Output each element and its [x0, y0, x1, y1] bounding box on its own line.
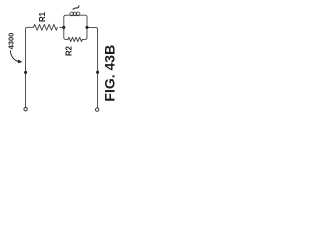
svg-text:R1: R1 — [38, 11, 47, 22]
node dot left of box — [62, 26, 65, 29]
node dot right of box — [85, 26, 88, 29]
wire left vertical with top corner to R1 — [26, 27, 34, 107]
inductor L coil loops — [70, 12, 74, 16]
terminal circle bottom left — [24, 108, 27, 111]
svg-text:FIG. 43B: FIG. 43B — [102, 45, 118, 102]
resistor R2 zigzag on bottom edge — [68, 37, 82, 41]
wire R1 to box left node — [60, 26, 64, 28]
node dot on left vertical — [24, 71, 27, 74]
wire box right node to right vertical — [87, 27, 98, 107]
terminal circle bottom right — [96, 108, 99, 111]
svg-text:4300: 4300 — [7, 33, 16, 50]
svg-text:R2: R2 — [65, 45, 74, 56]
node dot on right vertical — [96, 71, 99, 74]
resistor R1 — [34, 24, 58, 30]
arrow from 4300 to left wire — [10, 50, 18, 61]
label L (inductor) — [73, 6, 79, 9]
box loop (inductor top / resistor R2 bottom) outline — [64, 15, 87, 39]
